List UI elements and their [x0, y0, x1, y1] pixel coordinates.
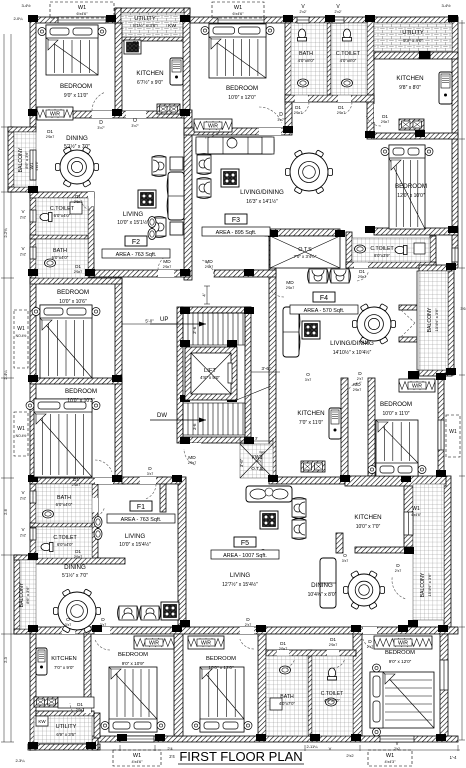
svg-text:BEDROOM: BEDROOM [385, 650, 415, 656]
svg-text:2′6x7: 2′6x7 [205, 265, 213, 269]
svg-text:1′-4: 1′-4 [450, 755, 458, 760]
svg-text:2′x7: 2′x7 [367, 645, 373, 649]
svg-text:3': 3' [255, 436, 258, 441]
svg-text:KITCHEN: KITCHEN [354, 514, 381, 521]
svg-text:10′0″ x 15′4½″: 10′0″ x 15′4½″ [119, 541, 151, 548]
small table F2 a [170, 157, 183, 170]
table F1 living [161, 602, 179, 620]
svg-text:2′6x7: 2′6x7 [46, 135, 54, 139]
KW point BL [36, 716, 48, 726]
svg-text:10′0″ x 12′0″: 10′0″ x 12′0″ [228, 95, 256, 101]
column [28, 625, 38, 632]
svg-text:2'4: 2'4 [167, 746, 173, 751]
column [310, 734, 320, 741]
svg-text:8′0″x3′9″: 8′0″x3′9″ [374, 253, 390, 258]
svg-text:16′3″ x 14′1½″: 16′3″ x 14′1½″ [246, 198, 278, 205]
flat badge F2 [102, 236, 170, 258]
bed bedroom3 F1 [26, 399, 100, 477]
door arc bath F5 [283, 660, 294, 668]
utility F2 floor [121, 13, 184, 37]
svg-text:6′0″x4′0″: 6′0″x4′0″ [57, 542, 73, 547]
wall F1|F5 [178, 477, 186, 627]
basin bath F1 [43, 510, 54, 518]
column [268, 230, 278, 237]
wall ctoilet/bath F2 right [88, 192, 94, 278]
svg-text:2′6x7: 2′6x7 [353, 388, 361, 392]
door label O wash F5 [260, 548, 266, 558]
dim corridor 5ft [122, 319, 177, 328]
OTS open-to-sky box [270, 236, 340, 268]
column [28, 475, 38, 482]
svg-text:10′0″ x 15′1½″: 10′0″ x 15′1½″ [117, 219, 149, 226]
door arc kitchen F3 [366, 116, 381, 127]
dining table F2 [56, 147, 99, 188]
door arc kitchen F2 D [205, 126, 222, 138]
column [268, 475, 278, 482]
column [340, 475, 350, 482]
door label D1 kitchen BL [76, 702, 84, 712]
svg-text:9′0″ x 10′9″: 9′0″ x 10′9″ [122, 661, 145, 666]
door label D1 ctoilet F4 [358, 269, 366, 279]
window marker [113, 750, 161, 766]
column [155, 734, 165, 741]
stair lower flight [183, 403, 245, 435]
outer wall right lower [440, 627, 448, 736]
opening O kitchen F2 [126, 111, 146, 118]
WC bath F3 [298, 29, 307, 41]
wall ctoilet F4 left [346, 232, 352, 268]
balcony1 outer wall [8, 127, 14, 192]
svg-text:6′9″ x 3′6″: 6′9″ x 3′6″ [56, 732, 76, 737]
wall lobby F3 [214, 270, 276, 277]
svg-text:DINING: DINING [66, 135, 88, 142]
door label MD F2 [163, 259, 171, 269]
wardrobe bedroom2 [194, 119, 232, 132]
svg-text:2'x2': 2'x2' [300, 10, 307, 14]
svg-text:8′6″ x 3′6″: 8′6″ x 3′6″ [25, 586, 30, 604]
svg-text:D1: D1 [280, 641, 286, 646]
bed bedroom BR [370, 664, 434, 736]
wardrobe bedroom1 [37, 107, 73, 120]
svg-text:2′4: 2′4 [169, 754, 175, 759]
svg-text:LIVING: LIVING [123, 211, 143, 218]
shower ctoilet F2 [70, 202, 82, 214]
balcony1 bottom wall [8, 187, 36, 192]
door D1 ctoilet F4 [354, 262, 368, 268]
wall below bedroom F3 [374, 228, 458, 235]
bed bedroom F3 right [381, 145, 433, 229]
svg-text:LIVING: LIVING [230, 572, 250, 579]
svg-text:D1: D1 [330, 637, 336, 642]
svg-text:BEDROOM: BEDROOM [206, 656, 236, 662]
window marker [50, 2, 114, 18]
svg-text:KITCHEN: KITCHEN [396, 75, 423, 82]
svg-text:2′6x7: 2′6x7 [74, 200, 82, 204]
dim kw1 3ft [257, 452, 266, 470]
geyser ctoilet F4 [414, 243, 425, 254]
wall bedroom B5a|B5b [174, 627, 183, 736]
svg-text:W1: W1 [133, 753, 141, 759]
wash basin F1 a [94, 517, 102, 528]
vent V ctoilet F4 [452, 248, 458, 262]
washing machine F5 [260, 511, 278, 529]
door MD F5 [355, 390, 362, 406]
svg-text:10′0″ x 10′6″: 10′0″ x 10′6″ [59, 299, 87, 305]
svg-text:BEDROOM: BEDROOM [60, 83, 92, 90]
svg-text:W1: W1 [29, 162, 34, 169]
column below utility F3 [419, 51, 431, 59]
wall bottom band top [30, 627, 458, 634]
outer wall left lower ext [30, 634, 36, 750]
window marker W1 right RM [446, 415, 460, 457]
column [180, 109, 190, 116]
KW1 OTS cross [240, 444, 273, 478]
svg-text:3′x7′: 3′x7′ [131, 124, 138, 128]
bath F2 floor [36, 239, 88, 278]
column [415, 130, 425, 137]
flat badge F1 [107, 501, 175, 523]
svg-text:10′0″ x 10′3″: 10′0″ x 10′3″ [67, 398, 95, 404]
column [180, 620, 190, 627]
column [448, 15, 458, 22]
door label MD F3 [205, 259, 213, 269]
svg-text:D1: D1 [75, 264, 81, 269]
wall kitchen F5 bottom [355, 547, 413, 553]
title underline [178, 763, 304, 765]
svg-text:W1: W1 [17, 326, 25, 332]
utility bump right wall [184, 8, 190, 23]
balcony3 door stub b [399, 337, 417, 342]
svg-text:F2: F2 [132, 239, 140, 246]
svg-text:KITCHEN: KITCHEN [51, 656, 76, 662]
svg-text:2′6x7: 2′6x7 [286, 286, 294, 290]
door arc bath F1 [92, 508, 104, 517]
wall bath|ctoilet F5 [308, 650, 312, 736]
door label MD F1 [188, 455, 196, 465]
svg-text:BEDROOM: BEDROOM [57, 289, 89, 296]
bed bedroom2 F3 [201, 24, 274, 78]
svg-text:2'x2': 2'x2' [20, 253, 27, 257]
door label D1 ctoilet F5 [329, 637, 337, 647]
column [438, 625, 448, 632]
door label D bedroom B5b [245, 617, 251, 627]
wall bedroom RM left [368, 378, 375, 476]
window marker W1 left b [14, 412, 28, 456]
column [28, 109, 38, 116]
wall below bedroom1/kitchen F2 [36, 111, 184, 118]
svg-text:C.TOILET: C.TOILET [370, 246, 394, 252]
svg-text:10′0″ x 7′0″: 10′0″ x 7′0″ [356, 524, 381, 530]
door label MD F5 [353, 382, 361, 392]
door label D1 dining F2 [46, 129, 54, 139]
wall ctoilet F2 top [30, 192, 94, 198]
svg-text:2′x2: 2′x2 [394, 747, 400, 751]
balcony1 top wall [8, 127, 36, 132]
vent V bath F3 [297, 17, 309, 23]
door arc balcony4 [392, 577, 405, 599]
wall bath/ctoilet F5 top [266, 650, 356, 656]
wall bedroom F2-2 right [115, 278, 122, 378]
wall F4|core [269, 235, 276, 477]
column [227, 395, 237, 402]
ctoilet F5 floor [312, 656, 353, 736]
door MD F2 [158, 270, 174, 277]
svg-text:2′6x7: 2′6x7 [381, 120, 389, 124]
door arc bedroom B5b [240, 639, 254, 649]
column [180, 269, 190, 276]
door arc living F1 [146, 484, 157, 499]
column [180, 340, 190, 347]
svg-text:BATH: BATH [299, 51, 313, 57]
column [180, 437, 190, 444]
stove kitchen BL [34, 697, 58, 707]
wardrobe bedroom B5b [188, 636, 224, 649]
basin ctoilet F5 [326, 698, 337, 706]
balcony3 outer wall [448, 268, 454, 375]
svg-text:4'x4'6": 4'x4'6" [411, 513, 422, 517]
wall below kitchen F1 [269, 477, 348, 484]
svg-text:C.TOILET: C.TOILET [321, 691, 343, 697]
stair right wall [245, 307, 251, 443]
svg-text:3′-6: 3′-6 [192, 326, 197, 334]
svg-text:BEDROOM: BEDROOM [65, 388, 97, 395]
column [28, 553, 38, 560]
svg-text:2′6x7: 2′6x7 [358, 275, 366, 279]
window W1 kitchen F5 [404, 512, 413, 535]
door D bedroom2 [259, 128, 281, 135]
svg-text:FIRST FLOOR PLAN: FIRST FLOOR PLAN [179, 749, 302, 764]
basin bath F3 [298, 79, 309, 87]
double sink counter F5 [246, 486, 292, 502]
door arc MD F3 [202, 260, 214, 277]
svg-text:DINING: DINING [64, 564, 86, 571]
column [86, 742, 96, 749]
door D1 kitchen F3 [374, 104, 381, 122]
outer wall top utility bump [115, 8, 190, 13]
utility F2 bottom wall [120, 37, 184, 41]
ctoilet F4 floor [352, 238, 430, 262]
bed bedroom RM [368, 420, 426, 476]
svg-text:V: V [329, 746, 332, 751]
wardrobe bedroom B5a [134, 636, 174, 649]
column [180, 395, 190, 402]
svg-text:2-11¼: 2-11¼ [306, 744, 318, 749]
lift label [200, 368, 220, 380]
door D1 bath F5 [277, 650, 289, 656]
svg-text:D1: D1 [75, 549, 81, 554]
svg-text:2′6x7: 2′6x7 [132, 46, 140, 50]
svg-text:DW: DW [157, 413, 167, 419]
column [335, 230, 345, 237]
door arc ctoilet F3 [343, 102, 352, 114]
svg-text:2′x7: 2′x7 [245, 623, 251, 627]
dining table F4 [353, 304, 396, 345]
svg-text:5'-0″: 5'-0″ [145, 319, 154, 324]
column [92, 625, 102, 632]
svg-text:C.TOILET: C.TOILET [336, 51, 361, 57]
svg-text:2′6x7: 2′6x7 [76, 708, 84, 712]
wall bedroom1|kitchen F2 [115, 23, 122, 113]
svg-text:W1: W1 [449, 429, 457, 435]
svg-text:4′0″x8′0″: 4′0″x8′0″ [298, 58, 315, 63]
wall segment F1 entry [160, 477, 166, 512]
svg-text:D1: D1 [359, 269, 365, 274]
column [436, 373, 446, 380]
balcony3 floor [419, 271, 448, 370]
door D bedroom B5b [240, 627, 254, 634]
door D bedroom BR [363, 627, 377, 634]
column balcony3 bottom [408, 371, 419, 379]
svg-text:9′0″ x 12′0″: 9′0″ x 12′0″ [389, 659, 412, 664]
armchair F2 living a [152, 156, 166, 177]
svg-text:5′1½″ x 7′0″: 5′1½″ x 7′0″ [64, 143, 90, 150]
window marker [368, 750, 412, 766]
svg-text:BEDROOM: BEDROOM [395, 183, 427, 190]
lift dim [251, 366, 280, 372]
fridge kitchen BL [36, 648, 47, 675]
svg-text:BEDROOM: BEDROOM [226, 85, 258, 92]
svg-text:BALCONY: BALCONY [420, 572, 426, 597]
door D1 ctoilet F3 [338, 95, 351, 102]
wall bedroom3 right [115, 378, 122, 478]
svg-text:D1: D1 [382, 114, 388, 119]
door label D balcony3 [357, 371, 363, 381]
svg-text:4′0″x7′0″: 4′0″x7′0″ [279, 701, 295, 706]
armchair F1 a [118, 606, 139, 620]
table F2 living [138, 190, 156, 208]
column [408, 620, 418, 627]
svg-text:KITCHEN: KITCHEN [297, 410, 324, 417]
wall between bedrooms F2/F1 [30, 378, 122, 384]
svg-text:4': 4' [202, 293, 207, 296]
svg-text:15′4½″ x 3′6″: 15′4½″ x 3′6″ [427, 573, 432, 597]
svg-text:10′0″ x 12′0″: 10′0″ x 12′0″ [208, 665, 234, 670]
svg-text:D1: D1 [77, 702, 83, 707]
column [172, 475, 182, 482]
outer wall top left [30, 17, 115, 23]
svg-text:D1: D1 [338, 105, 344, 110]
svg-text:AREA - 1007 Sqft.: AREA - 1007 Sqft. [223, 553, 267, 559]
vent V bath F2 [30, 247, 36, 259]
ctoilet F1 floor [36, 527, 92, 558]
svg-text:2′6x7: 2′6x7 [74, 555, 82, 559]
dining table F1 [54, 589, 101, 633]
wall utility BL top [36, 711, 94, 716]
door MD F1 [184, 443, 201, 449]
column [283, 126, 293, 133]
svg-text:2′6x7: 2′6x7 [329, 643, 337, 647]
sink unit kitchen F3 [439, 72, 452, 104]
KW1 OTS floor [240, 444, 273, 478]
svg-text:W/R: W/R [208, 124, 218, 130]
sink unit kitchen F2 [170, 58, 183, 85]
column [283, 15, 293, 22]
column [28, 375, 38, 382]
column [227, 340, 237, 347]
wall ctoilet F1 bottom [30, 558, 125, 564]
door arc bedroom B5a [95, 640, 110, 651]
svg-text:2′6x7: 2′6x7 [74, 270, 82, 274]
utility BL floor [34, 716, 92, 743]
column [256, 625, 266, 632]
sofa F5 vertical [320, 558, 336, 608]
svg-text:4′8" x 5′0": 4′8" x 5′0" [200, 375, 220, 380]
wall bath|ctoilet F3 [327, 23, 331, 100]
svg-text:3-4½: 3-4½ [441, 3, 451, 8]
armchair F4 b [330, 269, 351, 283]
section line stair [234, 386, 271, 401]
outer wall bottom utility bump [28, 744, 100, 750]
stair upper flight [183, 313, 245, 345]
svg-text:W/R: W/R [50, 112, 60, 118]
svg-text:2-6: 2-6 [3, 508, 8, 515]
svg-text:2′x2: 2′x2 [346, 753, 354, 758]
door arc kitchen BL [70, 703, 79, 716]
stair UP arrow [150, 317, 206, 334]
column [365, 131, 375, 138]
door D living F1 [140, 477, 156, 484]
balcony2 top wall [14, 555, 36, 560]
utility F3 floor [374, 23, 452, 52]
svg-text:4'x4'6": 4'x4'6" [131, 760, 143, 764]
door label D balcony4 [395, 563, 401, 573]
door D1 ctoilet F5 [327, 650, 339, 656]
balcony4 outer wall [444, 476, 451, 627]
svg-text:V: V [396, 741, 399, 746]
balcony3 french door swing [401, 310, 415, 337]
column [112, 109, 122, 116]
svg-text:C.TOILET: C.TOILET [53, 535, 77, 541]
fridge kitchen F1 [329, 408, 341, 439]
outer wall left upper [30, 17, 36, 127]
column [436, 734, 446, 741]
column [180, 15, 190, 22]
bottom dimension line [30, 745, 460, 751]
svg-text:9′8″ x 8′0″: 9′8″ x 8′0″ [399, 85, 421, 91]
wall below bedroom RM [345, 476, 446, 486]
wardrobe bedroom RM [399, 379, 435, 392]
svg-text:14′10½″ x 10′4½″: 14′10½″ x 10′4½″ [333, 349, 372, 356]
door label D1 bath F5 [279, 641, 287, 651]
wall below bath/ctoilet F3 [285, 95, 374, 102]
WC ctoilet F4 [395, 246, 407, 255]
column [404, 547, 414, 554]
svg-text:10′4¾″ x 8′0″: 10′4¾″ x 8′0″ [308, 592, 337, 598]
svg-text:BALCONY: BALCONY [427, 307, 433, 332]
wall utility BL right [94, 713, 100, 738]
armchair F5 b [292, 519, 306, 540]
svg-text:3-6: 3-6 [192, 423, 197, 430]
room label UTILITY BL [56, 724, 77, 737]
door arc ctoilet F2 [82, 202, 94, 211]
svg-text:NO.4½: NO.4½ [16, 334, 27, 338]
svg-text:O.T.S: O.T.S [251, 466, 263, 471]
dim lobby 4ft [202, 286, 211, 304]
wall above OTS [265, 229, 340, 236]
svg-text:2'x2': 2'x2' [20, 216, 27, 220]
wall bath|ctoilet F1 [30, 523, 92, 527]
column [436, 470, 446, 477]
svg-text:12′0″ x 10′0″: 12′0″ x 10′0″ [397, 193, 425, 199]
lift shaft [185, 347, 237, 400]
wall kitchen F1 right [341, 378, 348, 477]
svg-text:7′0″ x 9′0″: 7′0″ x 9′0″ [54, 665, 74, 670]
svg-text:W/R: W/R [412, 384, 422, 390]
column [28, 742, 38, 749]
svg-text:9′3″ x 4′0″: 9′3″ x 4′0″ [403, 38, 423, 43]
bath F1 floor [36, 484, 92, 523]
svg-text:2′6x7: 2′6x7 [279, 647, 287, 651]
